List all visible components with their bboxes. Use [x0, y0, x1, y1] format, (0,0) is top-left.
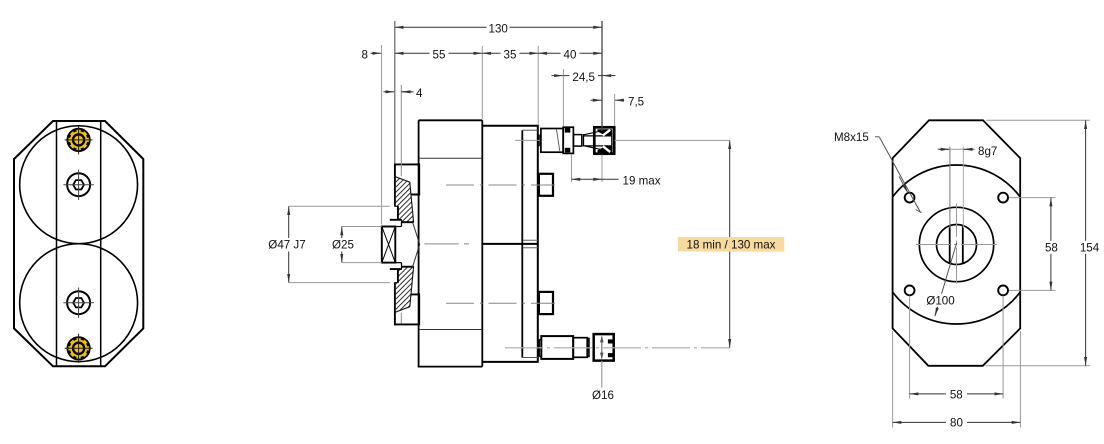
dimension 8g7 line	[937, 148, 975, 150]
svg-text:58: 58	[950, 388, 963, 401]
top fitting centreline into body	[515, 139, 540, 141]
top fitting nut seals	[565, 128, 571, 152]
bottom fitting cap	[594, 334, 614, 361]
dimension d16 line	[601, 337, 603, 359]
top fitting tube	[584, 136, 612, 146]
body internal chamber line bottom	[419, 329, 483, 331]
dimension 80	[893, 421, 1021, 423]
bolt hole bottom-left	[905, 286, 915, 296]
rear cover top edge	[522, 129, 538, 131]
bottom fitting mount interface	[539, 340, 541, 357]
dimension 4	[384, 91, 395, 93]
body internal chamber line top	[419, 157, 483, 159]
svg-text:Ø47 J7: Ø47 J7	[268, 239, 305, 252]
rear cover joint line	[521, 130, 523, 357]
extension line plug shoulder	[601, 21, 603, 131]
top yellow plug	[65, 125, 93, 154]
shaft section in pilot	[395, 222, 401, 267]
bottom port boss	[539, 292, 553, 314]
dimension 154	[1085, 120, 1087, 365]
bottom gear centreline	[446, 302, 555, 304]
pump body main block	[419, 120, 483, 366]
18min/130max highlight label	[678, 237, 784, 252]
rear flange octagon outline	[893, 120, 1021, 365]
dimension 7,5	[591, 99, 602, 101]
body centre parting line	[482, 243, 538, 245]
MIDDLE-VIEW	[382, 85, 730, 367]
upper bore edge	[402, 221, 413, 223]
LEFT-VIEW	[14, 121, 143, 366]
flange octagon outline (front view)	[14, 121, 143, 366]
dimension 154 extension lines	[986, 120, 1090, 365]
body circle top arc	[893, 165, 1021, 197]
dimension 8g7 extension lines	[949, 147, 951, 229]
bottom fitting cap notches	[608, 339, 613, 357]
vertical centreline	[956, 204, 958, 284]
svg-text:Ø100: Ø100	[926, 294, 954, 307]
top fitting cap corner detail bottom	[598, 146, 613, 153]
svg-text:4: 4	[416, 87, 423, 100]
dimension 130	[395, 26, 602, 28]
dimension 19max extension lines	[572, 155, 603, 183]
bottom socket screw: hex socket	[73, 298, 84, 307]
upper pilot step	[390, 206, 402, 220]
svg-text:35: 35	[504, 49, 517, 62]
svg-text:7,5: 7,5	[628, 95, 644, 108]
shaft cross diagonals	[382, 227, 396, 263]
horizontal centreline	[916, 244, 997, 246]
gear housing band right edge	[100, 122, 102, 366]
bottom gear bore circle	[20, 244, 138, 362]
svg-text:154: 154	[1080, 241, 1100, 254]
bore cone chamfer	[413, 222, 420, 267]
svg-text:19 max: 19 max	[623, 175, 661, 188]
svg-text:24,5: 24,5	[572, 71, 595, 84]
lower bore edge	[402, 266, 413, 268]
svg-text:Ø16: Ø16	[592, 389, 614, 402]
shaft circle d25	[937, 225, 977, 265]
svg-text:Ø25: Ø25	[332, 239, 354, 252]
flange pilot face line upper	[400, 85, 402, 176]
top fitting cone lines	[584, 131, 602, 150]
cover centre joint detail	[523, 240, 538, 248]
dimension 40	[538, 52, 602, 54]
flange pilot face line lower	[400, 313, 402, 324]
dimension 80 extension lines	[893, 331, 1021, 428]
top gear centreline	[446, 184, 555, 186]
extension line mounting face	[394, 21, 396, 164]
dimension 55	[395, 52, 483, 54]
flange plate upper section	[395, 164, 419, 206]
top fitting plug cap	[594, 127, 614, 153]
svg-text:55: 55	[433, 49, 446, 62]
top fitting stem line	[583, 134, 585, 146]
flange plate lower section	[395, 283, 419, 325]
dimension 58 vertical extension lines	[1009, 198, 1056, 291]
RIGHT-DIMS	[834, 120, 1104, 429]
top fitting nut	[563, 127, 573, 153]
svg-text:18 min / 130 max: 18 min / 130 max	[687, 238, 776, 251]
shaft end with spline cross	[382, 227, 396, 263]
top fitting body cone line	[557, 130, 560, 152]
MIDDLE-DIMS	[265, 21, 785, 402]
top gear bore circle	[20, 126, 138, 244]
extension line 35-40 joint	[537, 46, 539, 125]
svg-text:40: 40	[564, 49, 577, 62]
dimension 18min/130max line	[729, 140, 731, 347]
top fitting stem	[573, 135, 581, 147]
dimension d47 extension lines	[289, 206, 390, 282]
dimension 58 horizontal extension lines	[910, 296, 1004, 399]
svg-text:130: 130	[489, 23, 508, 36]
dimension 58 horizontal	[910, 393, 1004, 395]
pilot circle d47	[919, 207, 993, 281]
dimension 58 vertical	[1050, 198, 1052, 291]
top fitting cap corner detail top	[598, 129, 613, 136]
shaft centreline	[424, 243, 469, 245]
dimension 19max line	[572, 178, 603, 180]
dimension d25 extension lines	[342, 227, 382, 263]
dimension 35	[482, 52, 538, 54]
bottom socket screw: crosshair	[63, 288, 93, 318]
body circle bottom arc	[893, 292, 1021, 324]
bolt hole top-right	[998, 193, 1008, 203]
top socket screw: hex socket	[73, 180, 84, 189]
bottom fitting cylinder	[541, 336, 573, 359]
svg-text:M8x15: M8x15	[834, 131, 869, 144]
bottom fitting disc	[588, 338, 590, 358]
top fitting mount interface	[539, 135, 541, 147]
svg-text:58: 58	[1045, 241, 1058, 254]
extension line plug end	[614, 94, 616, 126]
extension line shaft tip	[381, 45, 383, 225]
flange upper hatched section	[395, 177, 414, 223]
top fitting valve body	[541, 129, 563, 153]
extension line nut face	[562, 69, 564, 126]
flange lower hatched section	[395, 267, 414, 313]
top socket screw: outer circle	[67, 173, 90, 196]
extension line 55-35 joint	[481, 46, 483, 119]
bottom fitting neck	[573, 338, 587, 358]
key slot left edge	[949, 226, 951, 263]
dimension 24,5	[563, 75, 602, 77]
svg-text:8: 8	[362, 49, 368, 62]
gear housing band left edge	[56, 122, 58, 366]
lower pilot step	[390, 269, 402, 283]
top port boss	[539, 174, 553, 196]
bottom socket screw: outer circle	[67, 291, 90, 314]
dimension 8g7 arrows	[939, 148, 950, 150]
bottom fitting centreline	[505, 347, 730, 349]
svg-text:8g7: 8g7	[978, 145, 997, 158]
dimension d25 line	[341, 227, 343, 263]
label d100 leader	[935, 243, 956, 315]
rear cover bottom edge	[522, 357, 538, 359]
dimension 8 arrow	[371, 52, 382, 54]
RIGHT-VIEW	[893, 120, 1021, 365]
pump body rear section with step	[482, 126, 538, 362]
top fitting centreline to dim	[614, 139, 729, 141]
bottom yellow plug	[65, 334, 93, 363]
svg-text:80: 80	[950, 416, 963, 429]
key slot right edge	[962, 226, 964, 264]
bolt hole bottom-right	[998, 286, 1008, 296]
bolt hole top-left	[905, 193, 915, 203]
top socket screw: crosshair	[63, 170, 93, 200]
dimension d47 line	[288, 206, 290, 282]
